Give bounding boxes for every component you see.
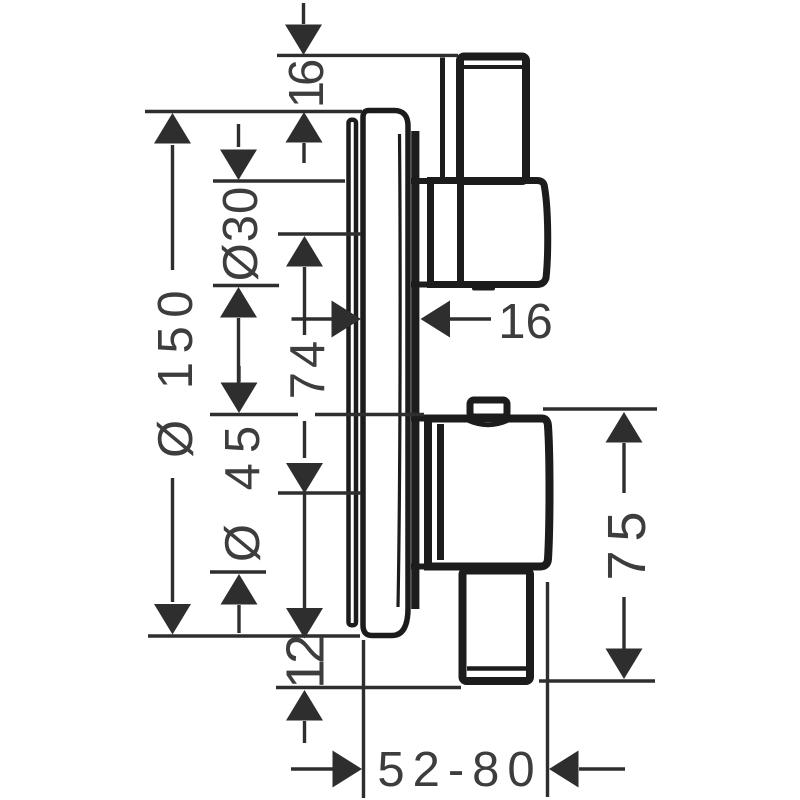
escutcheon flange bbox=[349, 120, 357, 626]
dim 16 top stem lower bbox=[302, 143, 305, 163]
dim 16 right tail bbox=[292, 317, 333, 320]
extension line 75 bottom bbox=[539, 679, 655, 682]
dim 52-80 tail left bbox=[291, 767, 333, 770]
extension line lower block center bbox=[278, 491, 361, 494]
upper handle bbox=[460, 57, 526, 182]
upper handle cap line bbox=[464, 65, 523, 69]
extension line block right vertical bbox=[546, 582, 549, 797]
extension line 45 bottom bbox=[210, 570, 266, 573]
extension line escutcheon top bbox=[145, 110, 362, 113]
dim 52-80 arrow left bbox=[549, 751, 579, 788]
svg-text:52-80: 52-80 bbox=[377, 743, 542, 797]
escutcheon plate body bbox=[363, 111, 408, 636]
plate front contour line bbox=[398, 134, 400, 607]
dim Ø150 arrow up bbox=[154, 113, 191, 144]
dim Ø45 arrow up bbox=[221, 574, 258, 605]
dim 52-80 arrow right bbox=[333, 751, 363, 788]
dim Ø30 arrow up bbox=[220, 287, 257, 318]
dim Ø150 stem upper bbox=[171, 145, 174, 270]
svg-text:Ø 45: Ø 45 bbox=[216, 416, 270, 562]
dim 52-80 tail right bbox=[579, 767, 625, 770]
svg-text:Ø 150: Ø 150 bbox=[149, 282, 203, 458]
lower valve block (thermostat housing) bbox=[428, 419, 550, 567]
extension line escutcheon bottom bbox=[148, 634, 360, 637]
svg-text:Ø30: Ø30 bbox=[214, 186, 268, 282]
dim Ø150 arrow down bbox=[154, 604, 191, 635]
dim Ø30 stem upper bbox=[237, 124, 240, 147]
dim 74 arrow down bbox=[286, 463, 323, 494]
extension line block top bbox=[213, 179, 345, 182]
extension line 75 top bbox=[543, 407, 657, 410]
dim 12 stem lower bbox=[303, 721, 306, 743]
svg-text:16: 16 bbox=[280, 60, 334, 108]
extension line block bottom bbox=[213, 284, 279, 287]
dim 16 right arrow left bbox=[421, 301, 451, 338]
dim Ø45 stem upper bbox=[237, 366, 240, 382]
lower block arc under tab bbox=[468, 421, 508, 426]
lower block inner wall line bbox=[437, 424, 444, 560]
dim 75 stem lower bbox=[622, 597, 625, 651]
extension line upper block center bbox=[278, 232, 361, 235]
lower handle bbox=[463, 571, 531, 682]
lower block top edge extension bbox=[411, 416, 430, 422]
dim 16 top arrow down bbox=[285, 25, 322, 56]
dim 75 stem upper bbox=[622, 443, 625, 493]
svg-text:74: 74 bbox=[281, 337, 335, 400]
lower block top tab bbox=[470, 400, 507, 417]
upper block top edge extension bbox=[411, 178, 432, 184]
dim 12 arrow up bbox=[286, 690, 323, 721]
svg-text:16: 16 bbox=[498, 295, 553, 349]
extension line lower block top left bbox=[210, 413, 298, 416]
upper block bottom edge extension bbox=[411, 282, 432, 288]
dim Ø150 stem lower bbox=[171, 478, 174, 602]
extension line lower block top mid bbox=[315, 413, 424, 416]
dim 75 arrow down bbox=[606, 649, 643, 680]
dim 74 stem upper bbox=[303, 267, 306, 335]
svg-text:12: 12 bbox=[276, 636, 336, 689]
dim 12 stem upper bbox=[303, 494, 306, 609]
extension line handle bottom bbox=[276, 686, 461, 689]
upper handle stem contour bbox=[457, 184, 464, 281]
dim Ø30 stem lower bbox=[237, 318, 240, 392]
dim 74 stem lower bbox=[303, 421, 306, 458]
dim 16 right arrow right bbox=[332, 301, 362, 338]
lower handle cap line bbox=[467, 666, 526, 671]
upper valve block bbox=[431, 181, 548, 285]
svg-text:75: 75 bbox=[597, 502, 657, 580]
valve sleeve line bbox=[411, 131, 419, 609]
dim 16 top arrow up bbox=[286, 112, 323, 143]
valve stem housing edge bbox=[440, 58, 445, 178]
upper block bottom tab bbox=[472, 284, 495, 291]
dim 75 arrow up bbox=[606, 412, 643, 443]
extension line top 16 upper bbox=[277, 54, 458, 57]
dim 16 right tail2 bbox=[450, 317, 491, 320]
dim 16 top stem upper bbox=[302, 3, 305, 24]
dim 74 arrow up bbox=[286, 236, 323, 267]
dim Ø45 arrow down bbox=[221, 383, 258, 414]
dim Ø45 stem lower bbox=[237, 605, 240, 633]
extension line plate face vertical bbox=[362, 640, 365, 798]
lower block bottom edge extension bbox=[411, 564, 430, 570]
dim 12 arrow down bbox=[286, 608, 323, 639]
dim Ø30 arrow down bbox=[220, 150, 257, 181]
